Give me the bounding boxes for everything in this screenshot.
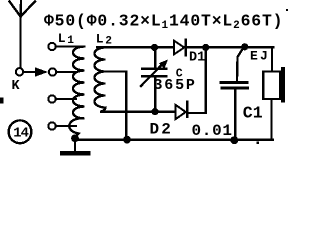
- label L2: [96, 32, 113, 48]
- scan noise top right: [286, 9, 288, 11]
- svg-text:D2: D2: [150, 121, 174, 139]
- svg-text:0.01: 0.01: [192, 122, 233, 140]
- svg-text:L: L: [96, 32, 104, 47]
- wire D2 cathode to top rail: [188, 47, 206, 113]
- diode D1: [174, 40, 186, 55]
- switch tap terminal 3: [48, 95, 55, 102]
- scan noise below rail: [257, 142, 260, 145]
- svg-text:C1: C1: [243, 104, 263, 123]
- wire bottom rail: [75, 139, 273, 142]
- node junction cap top: [151, 44, 158, 51]
- svg-text:1: 1: [67, 35, 74, 47]
- scan noise left edge: [0, 98, 4, 104]
- node junction D1 out: [202, 44, 209, 51]
- wire tap3 to L1: [56, 98, 76, 100]
- node junction L1 bottom: [71, 134, 79, 142]
- switch tap terminal 1: [48, 43, 55, 50]
- switch tap terminal 4: [48, 122, 55, 129]
- wire top rail: [97, 46, 273, 49]
- earphone EJ: [263, 47, 285, 139]
- svg-text:K: K: [12, 79, 21, 94]
- svg-text:EJ: EJ: [250, 49, 270, 64]
- svg-text:L: L: [58, 31, 66, 46]
- terminal antenna circle: [16, 68, 23, 75]
- figure number 14: [9, 120, 32, 143]
- node junction C1 top: [241, 43, 248, 50]
- capacitor C1: [221, 47, 248, 140]
- node junction C1 bottom: [230, 136, 238, 144]
- ground: [60, 139, 91, 156]
- diode D2: [175, 102, 187, 120]
- wire L2 tap to ground rail: [106, 72, 127, 140]
- svg-text:2: 2: [105, 35, 112, 47]
- svg-text:365P: 365P: [154, 77, 197, 94]
- node junction tap-rail: [123, 136, 131, 144]
- label L1: [58, 31, 75, 47]
- antenna: [10, 1, 36, 68]
- wire tank bottom: [101, 110, 176, 113]
- switch tap terminal 2: [49, 68, 56, 75]
- wire tap1 to L1 top: [56, 45, 85, 47]
- node junction cap bottom: [151, 108, 158, 115]
- inductor L2: [95, 48, 106, 112]
- switch K wiper arrow: [23, 67, 48, 77]
- svg-text:D1: D1: [189, 51, 205, 66]
- wire tap2 to L1: [56, 71, 76, 73]
- variable capacitor C 365P: [141, 47, 168, 111]
- wire tap4 to L1: [56, 125, 76, 127]
- svg-text:14: 14: [13, 127, 28, 142]
- inductor L1: [69, 47, 84, 138]
